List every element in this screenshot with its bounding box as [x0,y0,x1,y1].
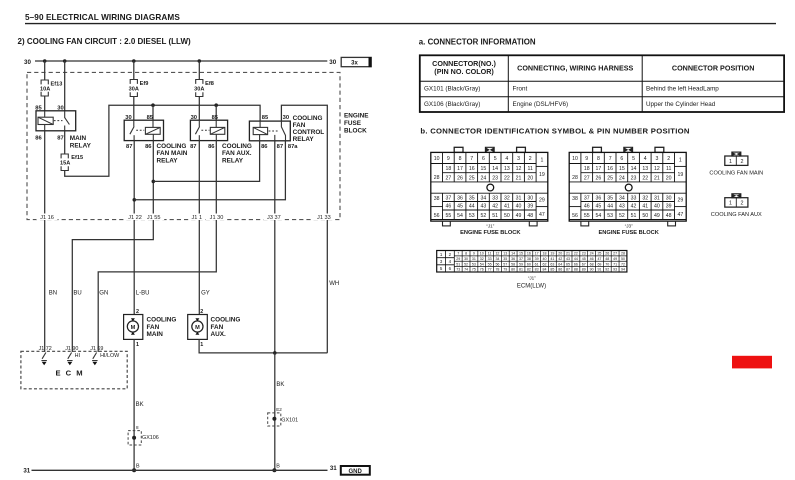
svg-text:37: 37 [445,195,451,201]
fan main relay coil [145,127,160,134]
svg-text:B: B [136,464,140,470]
svg-text:41: 41 [642,204,648,210]
svg-text:87: 87 [57,136,63,142]
svg-text:3x: 3x [351,61,358,67]
svg-text:54: 54 [480,262,484,266]
svg-text:27: 27 [584,175,590,181]
svg-text:37: 37 [519,257,523,261]
svg-text:34: 34 [481,195,487,201]
svg-text:30: 30 [666,195,672,201]
svg-text:FAN: FAN [211,324,224,331]
svg-text:83: 83 [535,268,539,272]
wire control relay 87a to fan main relay 87 [134,141,285,200]
main relay coil [38,117,53,124]
svg-text:HI/LOW: HI/LOW [100,353,120,359]
svg-text:BK: BK [136,402,144,408]
svg-text:51: 51 [492,213,498,219]
svg-text:48: 48 [666,213,672,219]
svg-text:Ef8: Ef8 [205,81,214,87]
svg-text:Behind the left HeadLamp: Behind the left HeadLamp [646,86,719,93]
svg-text:FAN: FAN [293,122,306,129]
svg-text:10: 10 [480,252,484,256]
svg-text:10: 10 [434,156,440,162]
wire fan main relay 87 to cooling fan main motor (L-BU) [133,141,135,315]
svg-text:FAN: FAN [147,324,160,331]
fuse Ef15 15A [61,154,68,158]
svg-text:50: 50 [504,213,510,219]
svg-text:88: 88 [574,268,578,272]
svg-text:21: 21 [566,252,570,256]
svg-text:87a: 87a [288,144,298,150]
svg-text:30: 30 [527,195,533,201]
svg-text:BK: BK [276,382,284,388]
svg-text:RELAY: RELAY [70,142,92,149]
svg-text:2: 2 [136,309,139,315]
svg-text:40: 40 [654,204,660,210]
svg-text:12: 12 [516,166,522,172]
svg-text:13: 13 [504,166,510,172]
svg-text:42: 42 [558,257,562,261]
svg-text:4: 4 [644,156,647,162]
svg-text:92: 92 [605,268,609,272]
svg-text:5–90 ELECTRICAL WIRING DIAGR: 5–90 ELECTRICAL WIRING DIAGRAMS [25,13,180,22]
svg-text:77: 77 [488,268,492,272]
wire rail30 to fuse Ef8 [198,61,200,80]
svg-text:J1 33: J1 33 [317,215,331,221]
wire to ground GX101 (BK) [274,353,276,470]
svg-text:44: 44 [469,204,475,210]
svg-text:44: 44 [607,204,613,210]
svg-text:17: 17 [596,166,602,172]
main relay contact [54,120,63,122]
junction 87 wire / control relay 87a rail [133,198,137,202]
svg-text:ENGINE FUSE BLOCK: ENGINE FUSE BLOCK [460,230,521,236]
svg-text:Ef15: Ef15 [71,155,83,161]
svg-text:E2: E2 [276,407,282,412]
svg-text:2: 2 [529,156,532,162]
svg-text:85: 85 [550,268,554,272]
svg-text:RELAY: RELAY [222,157,244,164]
svg-text:34: 34 [619,195,625,201]
svg-text:32: 32 [642,195,648,201]
svg-text:21: 21 [516,175,522,181]
junction aux motor / control 87 / GX101 branch [273,351,277,355]
svg-text:29: 29 [456,257,460,261]
svg-text:50: 50 [621,257,625,261]
svg-text:5: 5 [632,156,635,162]
svg-text:30: 30 [24,59,31,66]
svg-text:Engine (DSL/HFV6): Engine (DSL/HFV6) [513,101,569,108]
svg-text:54: 54 [596,213,602,219]
svg-text:7: 7 [457,252,459,256]
svg-text:CONNECTING, WIRING HARNESS: CONNECTING, WIRING HARNESS [517,64,633,73]
svg-text:23: 23 [492,175,498,181]
svg-text:55: 55 [445,213,451,219]
svg-text:28: 28 [434,175,440,181]
svg-text:84: 84 [543,268,547,272]
svg-text:66: 66 [574,262,578,266]
svg-text:FAN AUX.: FAN AUX. [222,150,252,157]
svg-text:87: 87 [190,144,196,150]
svg-text:53: 53 [472,262,476,266]
junction on rail 30 at main relay 30 [63,59,67,63]
svg-text:40: 40 [516,204,522,210]
svg-text:COOLING: COOLING [147,317,177,324]
connector ECM(LLW) J1 [437,251,627,273]
svg-text:GN: GN [99,291,108,297]
svg-text:67: 67 [582,262,586,266]
svg-text:42: 42 [631,204,637,210]
svg-text:Ef9: Ef9 [140,81,149,87]
svg-text:30: 30 [464,257,468,261]
svg-text:GX106 (Black/Gray): GX106 (Black/Gray) [424,101,480,108]
svg-text:78: 78 [495,268,499,272]
svg-text:56: 56 [495,262,499,266]
svg-text:76: 76 [480,268,484,272]
wire fuse Ef15 to relay coil supply rail [65,105,260,176]
svg-text:25: 25 [597,252,601,256]
svg-text:COOLING FAN AUX: COOLING FAN AUX [711,212,762,218]
svg-text:89: 89 [582,268,586,272]
svg-text:38: 38 [434,196,440,202]
junction aux ground / rail 31 [272,468,276,472]
svg-text:86: 86 [261,144,268,150]
svg-text:14: 14 [492,166,498,172]
svg-text:27: 27 [613,252,617,256]
engine fuse block dashed outline [27,72,340,219]
svg-text:33: 33 [488,257,492,261]
svg-text:35: 35 [503,257,507,261]
svg-text:49: 49 [613,257,617,261]
svg-text:M: M [131,325,136,331]
svg-text:MAIN: MAIN [147,331,164,338]
svg-text:13: 13 [503,252,507,256]
svg-text:52: 52 [619,213,625,219]
svg-text:CONNECTOR POSITION: CONNECTOR POSITION [672,64,755,73]
svg-text:70: 70 [605,262,609,266]
svg-text:(PIN NO. COLOR): (PIN NO. COLOR) [434,67,494,76]
svg-text:15: 15 [619,166,625,172]
svg-text:86: 86 [145,144,152,150]
svg-text:“J1”: “J1” [528,276,536,281]
wire fan aux relay 86 to ECM J1-69 (GN) [98,141,216,352]
svg-text:26: 26 [605,252,609,256]
svg-text:75: 75 [472,268,476,272]
svg-text:J1 55: J1 55 [147,215,161,221]
svg-text:2: 2 [741,159,744,165]
svg-text:31: 31 [23,467,30,474]
svg-text:32: 32 [504,195,510,201]
svg-text:FUSE: FUSE [344,120,362,127]
svg-text:54: 54 [457,213,463,219]
svg-text:38: 38 [572,196,578,202]
svg-text:Ef13: Ef13 [51,81,63,87]
svg-text:25: 25 [469,175,475,181]
svg-text:22: 22 [642,175,648,181]
svg-text:46: 46 [590,257,594,261]
fan aux relay coil [210,127,225,134]
svg-text:J1 90: J1 90 [65,346,78,352]
svg-text:AUX.: AUX. [211,331,226,338]
wire fuse Ef13 to main relay 85 [44,96,46,111]
svg-text:8: 8 [597,156,600,162]
svg-text:20: 20 [666,175,672,181]
wire main relay 86 to ECM J1-72 (BN) [44,131,46,352]
svg-text:74: 74 [464,268,468,272]
svg-text:23: 23 [631,175,637,181]
svg-text:GY: GY [201,291,210,297]
svg-text:24: 24 [481,175,487,181]
fuse Ef13 10A [41,80,48,84]
svg-text:80: 80 [511,268,515,272]
svg-text:87: 87 [566,268,570,272]
svg-text:47: 47 [539,212,545,218]
ECM internal switch/ground at x=96.6 [93,353,97,359]
fan main relay contact [133,120,135,126]
junction rail A / fan main relay 85 [151,103,155,107]
svg-text:2: 2 [667,156,670,162]
svg-text:BLOCK: BLOCK [344,128,367,135]
svg-text:43: 43 [566,257,570,261]
svg-text:COOLING: COOLING [157,143,187,150]
svg-text:47: 47 [597,257,601,261]
svg-text:31: 31 [472,257,476,261]
svg-text:MAIN: MAIN [70,135,87,142]
svg-text:GND: GND [349,469,363,475]
GND box [341,466,370,475]
svg-text:“J1”: “J1” [486,223,494,228]
svg-text:25: 25 [607,175,613,181]
svg-text:RELAY: RELAY [293,136,315,143]
svg-text:61: 61 [535,262,539,266]
svg-text:10A: 10A [40,87,50,93]
svg-text:WH: WH [329,281,339,287]
svg-text:71: 71 [613,262,617,266]
svg-text:28: 28 [621,252,625,256]
svg-text:21: 21 [654,175,660,181]
svg-text:29: 29 [539,198,545,204]
wire control relay 87 to fan aux motor node (J3-37) [274,141,276,353]
svg-text:10: 10 [572,156,578,162]
svg-text:49: 49 [516,213,522,219]
svg-text:2: 2 [200,309,203,315]
svg-text:32: 32 [480,257,484,261]
svg-text:16: 16 [607,166,613,172]
svg-text:18: 18 [445,166,451,172]
svg-text:57: 57 [503,262,507,266]
svg-text:9: 9 [447,156,450,162]
svg-text:27: 27 [445,175,451,181]
svg-text:58: 58 [511,262,515,266]
svg-text:RELAY: RELAY [157,157,179,164]
svg-text:CONTROL: CONTROL [293,129,325,136]
wire fuse Ef9 to fan main relay 30 [133,97,135,120]
svg-text:30A: 30A [194,86,204,92]
ECM internal switch/ground at x=71.6 [68,353,72,359]
svg-text:29: 29 [677,198,683,204]
svg-text:62: 62 [543,262,547,266]
svg-text:42: 42 [492,204,498,210]
svg-text:ECM(LLW): ECM(LLW) [517,284,546,290]
fuse block bottom pin labels [37,214,58,221]
junction main ground / rail 31 [132,468,136,472]
fuse Ef9 30A [130,80,137,84]
svg-text:28: 28 [572,175,578,181]
svg-text:73: 73 [456,268,460,272]
svg-text:3: 3 [517,156,520,162]
svg-text:46: 46 [445,204,451,210]
svg-text:90: 90 [590,268,594,272]
svg-text:6: 6 [620,156,623,162]
svg-text:1: 1 [200,342,203,348]
svg-text:20: 20 [527,175,533,181]
wire fan aux motor 1 to control relay 87 / WH node [199,339,327,353]
svg-text:59: 59 [519,262,523,266]
svg-text:5: 5 [494,156,497,162]
wire fuse Ef8 to fan aux relay 30 [198,97,200,120]
svg-text:FAN MAIN: FAN MAIN [157,150,188,157]
wire rail30 to main relay 30 [64,61,66,111]
svg-text:39: 39 [527,204,533,210]
svg-text:L-BU: L-BU [136,291,150,297]
wire control relay 30 up over to WH (J1-33) [281,105,327,353]
svg-text:18: 18 [584,166,590,172]
svg-text:37: 37 [584,195,590,201]
wire fan main relay 86 to ECM J1-90 (BU) [72,141,153,352]
svg-text:51: 51 [631,213,637,219]
wire control relay 86 to fan main relay 86 [153,141,259,182]
svg-text:26: 26 [457,175,463,181]
svg-text:72: 72 [621,262,625,266]
svg-text:11: 11 [488,252,492,256]
svg-text:45: 45 [457,204,463,210]
svg-text:52: 52 [464,262,468,266]
svg-text:15A: 15A [60,161,70,167]
ECM dashed outline [21,351,127,389]
svg-text:65: 65 [566,262,570,266]
svg-text:56: 56 [434,213,440,219]
svg-text:J1 22: J1 22 [128,215,142,221]
svg-text:E C M: E C M [56,369,85,378]
svg-text:24: 24 [590,252,594,256]
svg-text:41: 41 [504,204,510,210]
page link box 3x [341,57,371,66]
svg-text:2) COOLING FAN CIRCUIT : 2.0 D: 2) COOLING FAN CIRCUIT : 2.0 DIESEL (LLW… [18,37,192,46]
svg-text:14: 14 [511,252,515,256]
svg-text:86: 86 [558,268,562,272]
svg-text:COOLING FAN MAIN: COOLING FAN MAIN [709,171,763,177]
svg-text:7: 7 [470,156,473,162]
svg-text:J1 1: J1 1 [192,215,203,221]
fan aux relay contact [198,120,200,126]
svg-text:22: 22 [504,175,510,181]
svg-text:48: 48 [605,257,609,261]
wire bus 30 top rail [35,60,327,62]
svg-text:86: 86 [208,144,215,150]
svg-text:17: 17 [535,252,539,256]
svg-text:COOLING: COOLING [222,143,252,150]
svg-text:1: 1 [729,159,732,165]
svg-text:93: 93 [613,268,617,272]
svg-text:12: 12 [654,166,660,172]
svg-text:16: 16 [469,166,475,172]
svg-text:55: 55 [584,213,590,219]
svg-text:69: 69 [597,262,601,266]
svg-text:BN: BN [49,291,57,297]
svg-text:30A: 30A [129,86,139,92]
svg-text:9: 9 [585,156,588,162]
svg-text:9: 9 [473,252,475,256]
connector COOLING FAN MAIN [732,152,741,156]
connector J1 ENGINE FUSE BLOCK [454,147,463,152]
wire rail A to fan aux relay 85 [215,105,217,120]
svg-text:1: 1 [541,158,544,164]
svg-text:30: 30 [329,59,336,66]
svg-text:J1 30: J1 30 [210,215,224,221]
svg-text:a. CONNECTOR INFORMATION: a. CONNECTOR INFORMATION [419,38,536,47]
svg-text:15: 15 [481,166,487,172]
svg-text:36: 36 [457,195,463,201]
svg-text:2: 2 [741,201,744,207]
svg-text:35: 35 [469,195,475,201]
svg-text:19: 19 [539,172,545,178]
svg-text:63: 63 [550,262,554,266]
svg-text:68: 68 [590,262,594,266]
svg-text:26: 26 [596,175,602,181]
svg-text:41: 41 [550,257,554,261]
wire fan main motor 1 to ground GX106 (BK) [133,339,135,470]
svg-text:39: 39 [666,204,672,210]
fuse Ef8 30A [196,80,203,84]
svg-text:16: 16 [527,252,531,256]
svg-text:56: 56 [572,213,578,219]
svg-text:3: 3 [656,156,659,162]
svg-text:52: 52 [481,213,487,219]
svg-text:1: 1 [136,342,139,348]
svg-text:11: 11 [528,166,533,172]
svg-text:55: 55 [488,262,492,266]
svg-text:B: B [276,464,280,470]
svg-text:48: 48 [527,213,533,219]
svg-text:49: 49 [654,213,660,219]
control relay contact [269,130,278,132]
wire fan aux relay 87 to cooling fan aux motor (GY) [198,141,200,315]
red marker [732,356,772,369]
svg-text:40: 40 [543,257,547,261]
junction rail A / fan aux relay 85 [214,103,218,107]
ECM internal switch/ground at x=45.9 [42,353,46,359]
svg-text:COOLING: COOLING [293,115,323,122]
svg-text:60: 60 [527,262,531,266]
svg-text:36: 36 [511,257,515,261]
svg-text:19: 19 [550,252,554,256]
svg-text:J1 16: J1 16 [40,215,54,221]
svg-text:8: 8 [459,156,462,162]
svg-text:43: 43 [481,204,487,210]
control relay coil [253,127,267,134]
svg-text:36: 36 [596,195,602,201]
svg-text:82: 82 [527,268,531,272]
svg-text:79: 79 [503,268,507,272]
svg-text:24: 24 [619,175,625,181]
svg-text:GX106: GX106 [142,435,159,441]
svg-text:81: 81 [519,268,523,272]
junction 86 wire / control relay 86 rail [152,180,156,184]
svg-text:COOLING: COOLING [211,317,241,324]
svg-text:GX101 (Black/Gray): GX101 (Black/Gray) [424,86,480,93]
svg-text:91: 91 [597,268,601,272]
svg-text:BU: BU [73,291,81,297]
